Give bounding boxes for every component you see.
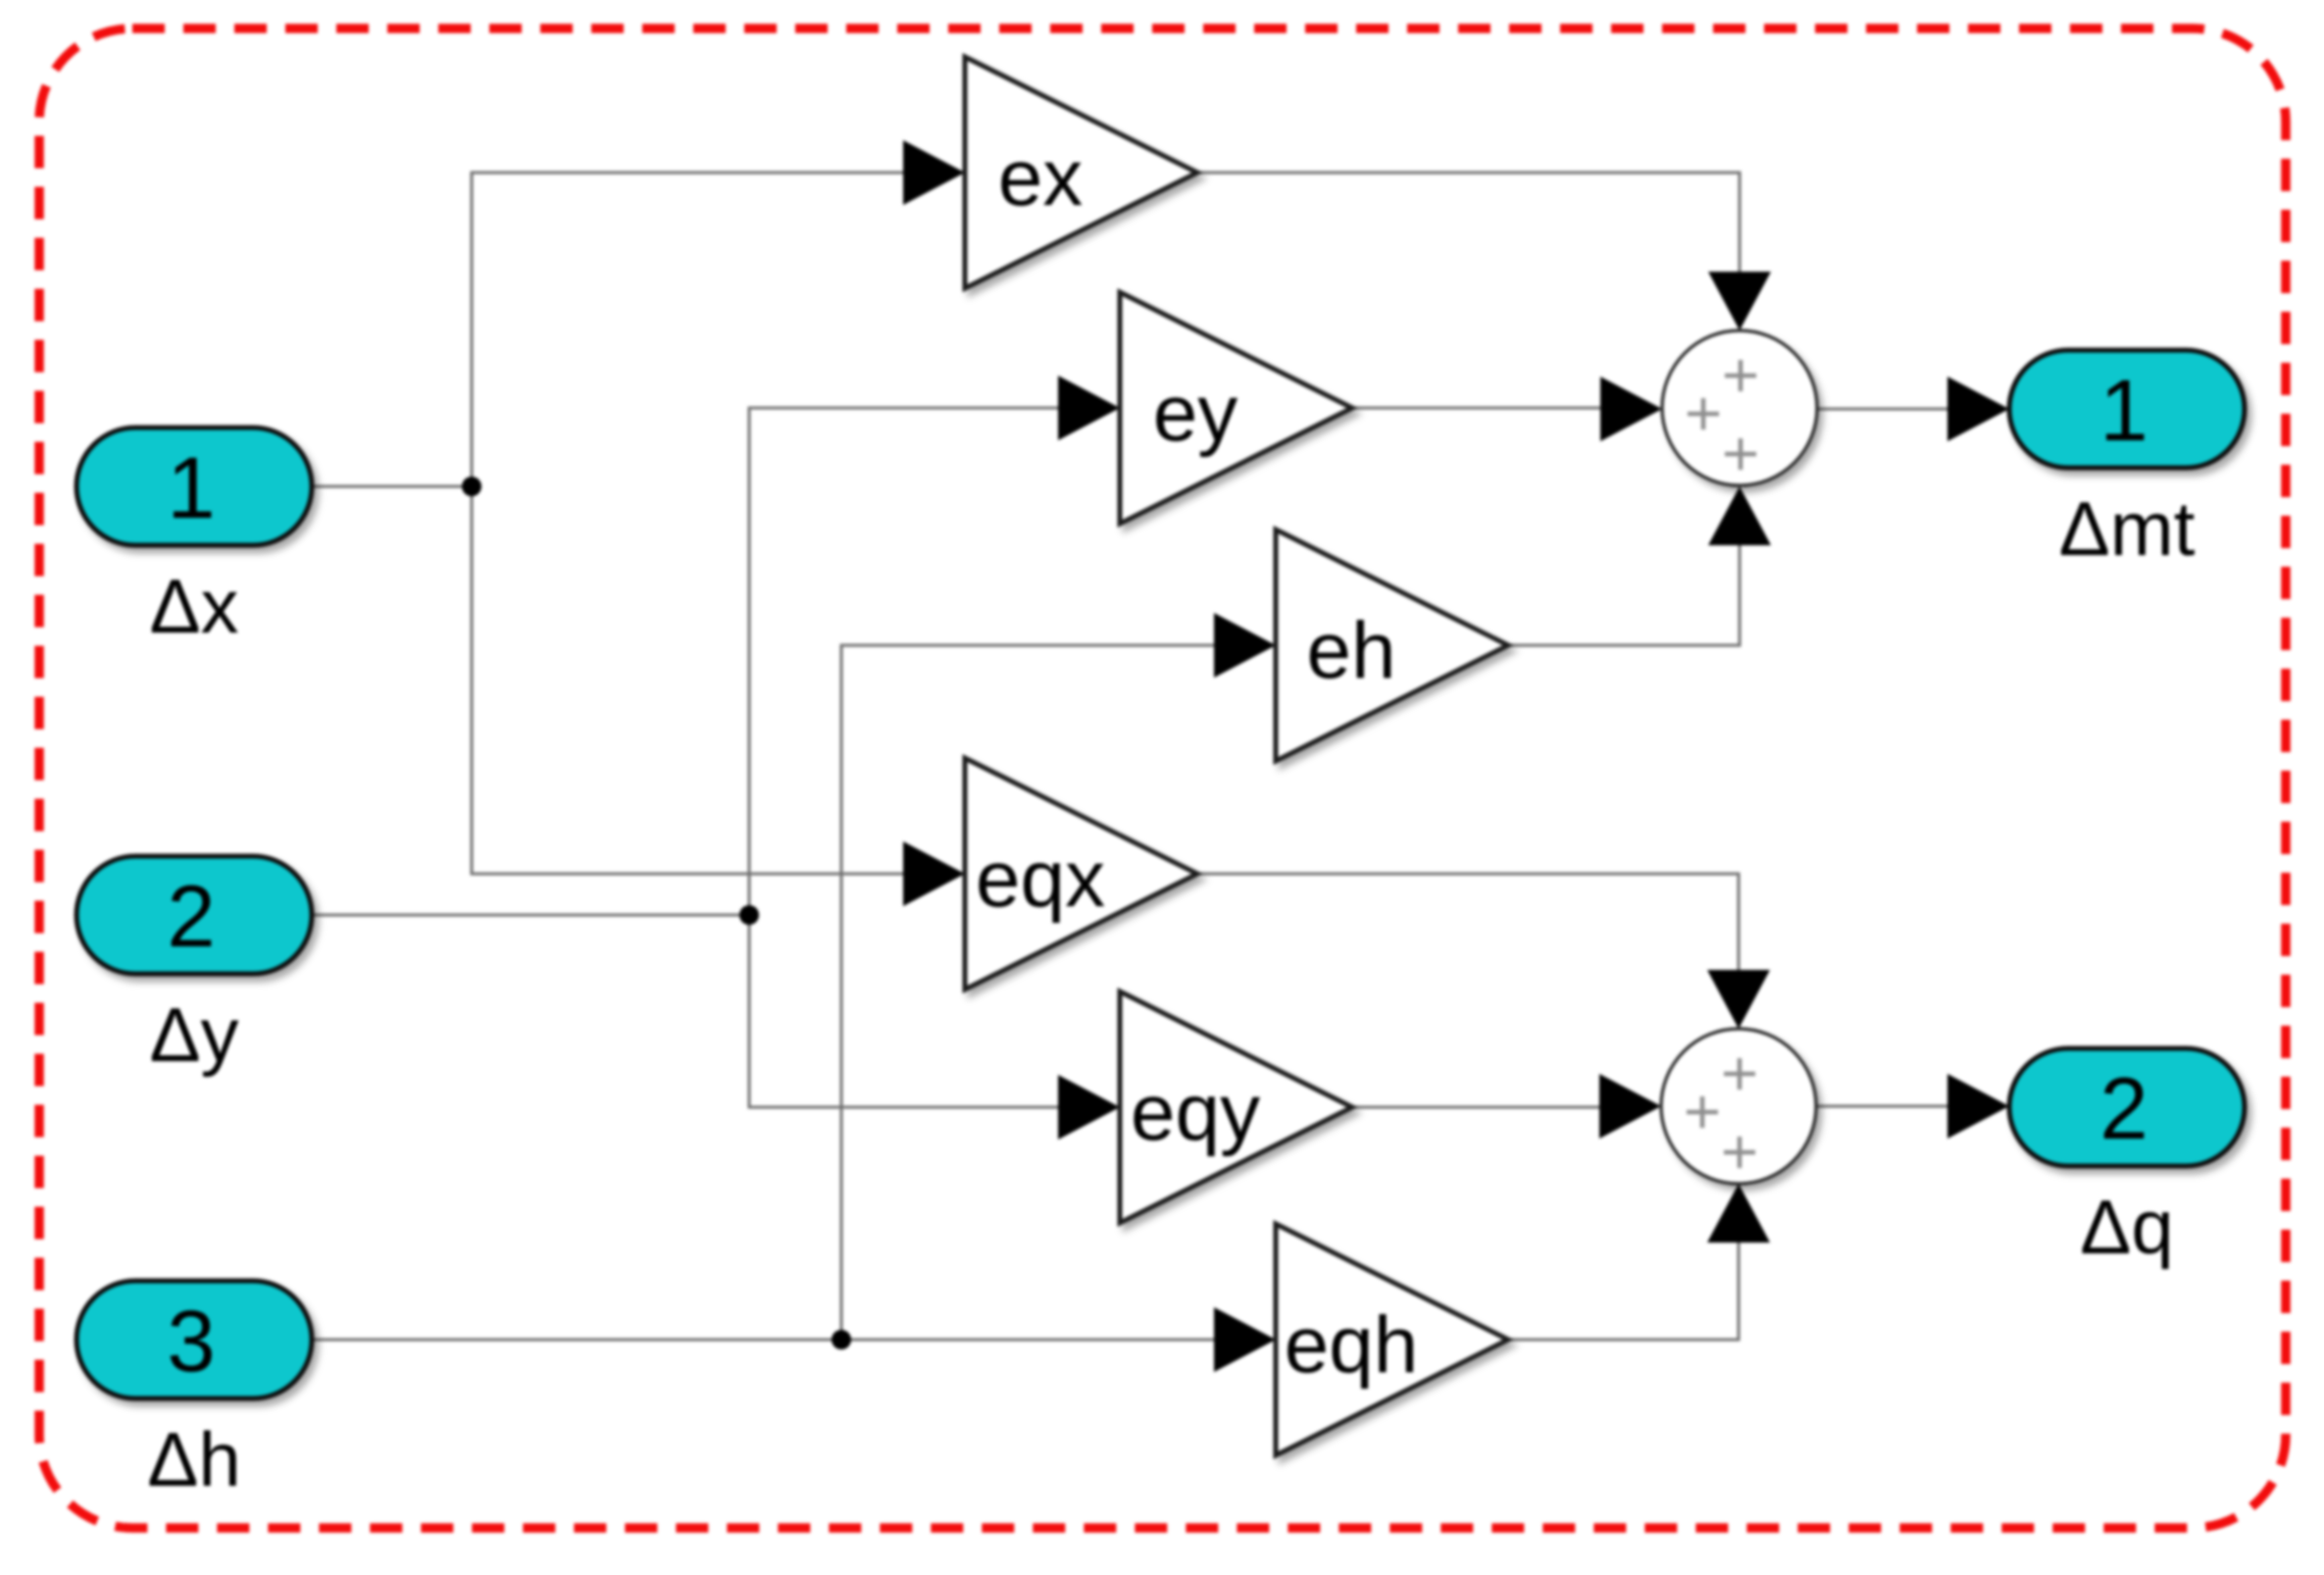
svg-text:eqh: eqh <box>1285 1300 1419 1390</box>
svg-text:Δmt: Δmt <box>2059 485 2196 572</box>
sum S1 <box>1662 330 1817 485</box>
arrowhead into sum S1 bottom port <box>1708 486 1771 545</box>
wire net Dh: inport 3 straight to gain eqh <box>312 1339 1221 1342</box>
svg-text:ey: ey <box>1153 369 1238 458</box>
arrowhead into sum S2 left port <box>1599 1074 1661 1139</box>
svg-text:eqy: eqy <box>1131 1068 1260 1157</box>
gain eqh <box>1276 1224 1508 1455</box>
gain ex <box>965 57 1197 288</box>
arrowhead into gain eh <box>1214 613 1276 678</box>
arrowhead into gain eqh <box>1214 1307 1276 1372</box>
sum S2 plus signs <box>1687 1058 1755 1168</box>
wire net Dh upper branch to gain eh <box>841 645 1221 1340</box>
arrowhead into sum S1 left port <box>1600 377 1662 441</box>
gain eh <box>1276 530 1508 761</box>
junction J2 <box>739 905 759 925</box>
svg-text:1: 1 <box>2099 361 2148 459</box>
wire gain eh output to sum S1 bottom <box>1508 541 1740 645</box>
wire net Dy upper branch to gain ey <box>749 408 1065 915</box>
arrowhead into gain ex <box>903 140 965 205</box>
wire net Dx: inport 1 to junction J1 <box>312 485 472 488</box>
junction J1 <box>462 477 481 496</box>
junction J3 <box>832 1330 851 1349</box>
wire sum S1 output to outport 1 <box>1817 408 1953 411</box>
outport 2 <box>2009 1048 2245 1166</box>
arrowhead into gain ey <box>1058 376 1120 440</box>
wire sum S2 output to outport 2 <box>1816 1105 1953 1108</box>
svg-text:Δh: Δh <box>147 1416 240 1502</box>
outport 1 <box>2009 350 2245 468</box>
sum S2 <box>1661 1029 1816 1184</box>
wire net Dy: inport 2 to junction J2 <box>312 914 749 917</box>
wire gain eqh output to sum S2 bottom <box>1508 1239 1739 1340</box>
inport 2 <box>76 856 312 974</box>
arrowhead into outport 1 <box>1947 377 2009 441</box>
wire net Dx lower branch to gain eqx <box>472 486 910 874</box>
wire gain ey output to sum S1 left <box>1352 407 1608 410</box>
gain ey <box>1120 292 1352 524</box>
svg-text:ex: ex <box>998 133 1084 223</box>
gain eqx <box>965 758 1197 990</box>
svg-text:3: 3 <box>167 1292 216 1390</box>
inport 1 <box>76 428 312 545</box>
svg-text:2: 2 <box>167 867 216 965</box>
wire gain ex output to sum S1 top <box>1197 173 1740 278</box>
svg-text:1: 1 <box>167 438 216 536</box>
svg-text:Δy: Δy <box>149 991 238 1078</box>
svg-text:Δq: Δq <box>2080 1184 2173 1270</box>
arrowhead into outport 2 <box>1947 1074 2009 1139</box>
svg-text:eqx: eqx <box>976 835 1105 924</box>
wire net Dx upper branch to gain ex <box>472 173 910 486</box>
arrowhead into gain eqy <box>1058 1075 1120 1140</box>
svg-text:2: 2 <box>2099 1059 2148 1157</box>
arrowhead into sum S1 top port <box>1708 272 1771 330</box>
wire net Dy lower branch to gain eqy <box>749 915 1065 1107</box>
gain eqy <box>1120 991 1352 1223</box>
arrowhead into gain eqx <box>903 841 965 906</box>
wire gain eqx output to sum S2 top <box>1197 874 1739 976</box>
inport 3 <box>76 1281 312 1398</box>
arrowhead into sum S2 top port <box>1707 970 1770 1029</box>
wire gain eqy output to sum S2 left <box>1352 1106 1607 1109</box>
svg-text:Δx: Δx <box>149 563 238 649</box>
sum S1 plus signs <box>1688 360 1756 470</box>
svg-text:eh: eh <box>1306 606 1395 695</box>
arrowhead into sum S2 bottom port <box>1707 1184 1770 1243</box>
